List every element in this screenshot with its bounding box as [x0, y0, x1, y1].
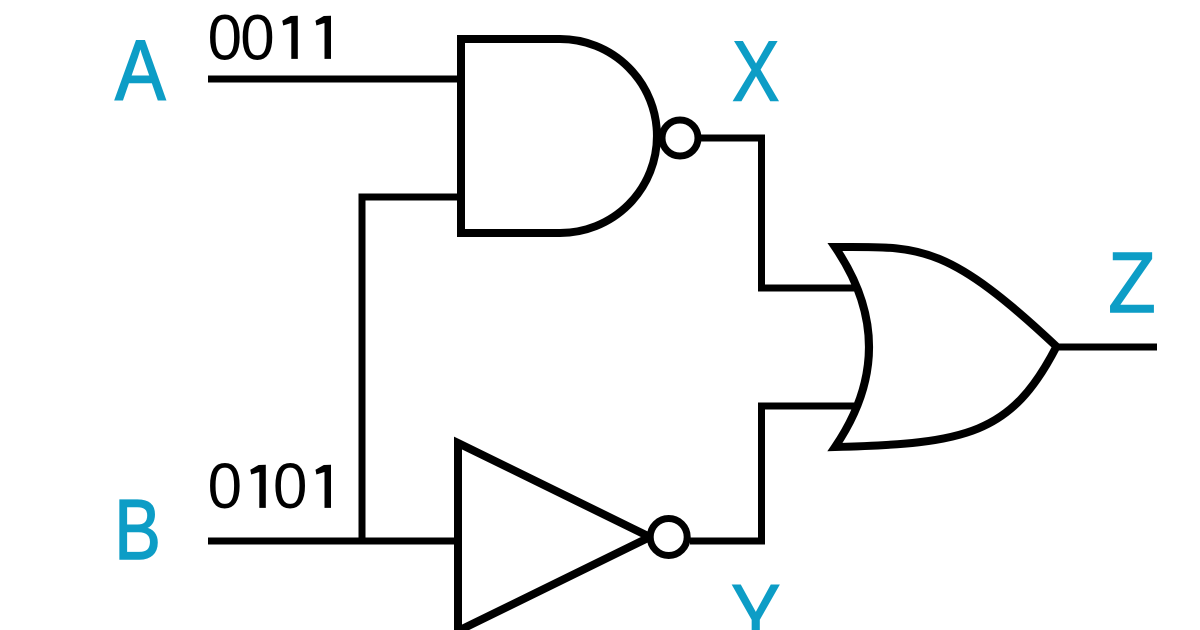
value 0011 on wire A	[208, 3, 242, 74]
label A	[115, 24, 166, 119]
NOT gate U2 inversion bubble	[650, 519, 687, 556]
NAND gate U1 body	[461, 39, 657, 233]
svg-text:Z: Z	[1108, 236, 1155, 331]
svg-text:A: A	[115, 24, 166, 119]
label B	[114, 483, 161, 577]
wire B branch vertical	[359, 197, 366, 541]
svg-text:0: 0	[273, 451, 307, 522]
label Z	[1108, 236, 1155, 331]
OR gate U3 body	[835, 247, 1057, 447]
value 0101 on wire B	[208, 451, 242, 522]
label Y	[731, 567, 780, 630]
svg-text:0: 0	[208, 3, 242, 74]
NOT gate U2 body	[458, 443, 650, 630]
wire A input	[208, 76, 462, 83]
wire Y from NOT to OR	[690, 406, 866, 541]
wire Z output	[1056, 344, 1157, 351]
NAND gate U1 inversion bubble	[662, 120, 698, 156]
svg-text:Y: Y	[731, 567, 780, 630]
label X	[732, 23, 779, 119]
svg-text:X: X	[732, 23, 779, 119]
wire X from NAND to OR	[700, 138, 866, 288]
svg-text:0: 0	[208, 451, 242, 522]
wire B input	[208, 538, 460, 545]
svg-text:B: B	[114, 483, 161, 577]
svg-text:0: 0	[240, 3, 274, 74]
wire B branch horizontal to NAND	[359, 194, 463, 201]
